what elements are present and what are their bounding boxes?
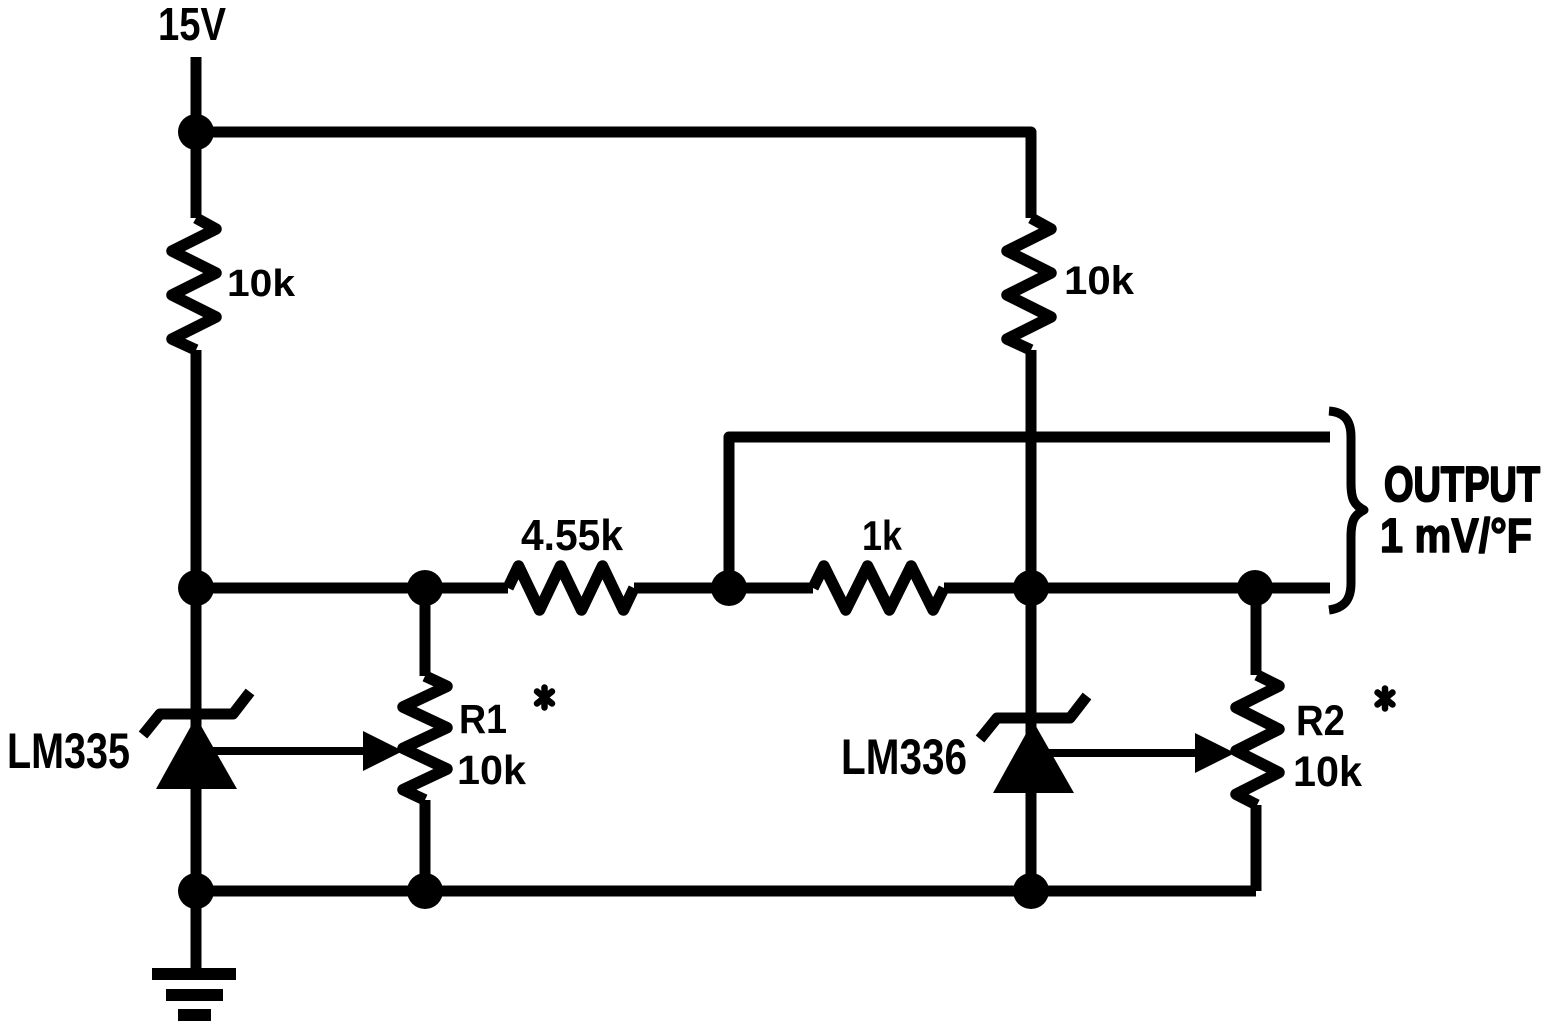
potentiometer R2 zigzag	[1236, 675, 1279, 805]
wire left rail from 10k down through LM335 to bottom rail	[191, 350, 202, 891]
diode LM336 zener cathode bar	[980, 696, 1087, 739]
junction dot LM336 bottom	[1013, 873, 1049, 909]
wire top rail from junction to right branch corner and down	[196, 132, 1031, 218]
junction dot R2 top	[1237, 570, 1273, 606]
diode LM336 anode triangle	[993, 721, 1074, 793]
junction dot R1 bottom	[407, 873, 443, 909]
wire potentiometer R2 branch top	[1251, 588, 1262, 675]
svg-text:4.55k: 4.55k	[521, 511, 623, 560]
junction dot at top-left	[178, 114, 214, 150]
svg-text:15V: 15V	[158, 0, 226, 50]
potentiometer R1 zigzag	[403, 676, 447, 800]
wiper arrow from LM336 to R2	[1047, 733, 1235, 773]
svg-text:LM335: LM335	[7, 723, 130, 779]
svg-text:10k: 10k	[1293, 748, 1362, 796]
wire middle rail left segment	[196, 583, 508, 594]
svg-text:R2: R2	[1296, 697, 1345, 745]
svg-text:10k: 10k	[457, 747, 526, 793]
output brace	[1329, 411, 1364, 610]
svg-text:OUTPUT: OUTPUT	[1384, 458, 1540, 512]
wire bottom rail	[196, 886, 1256, 897]
junction dot bottom-left	[178, 873, 214, 909]
wire 15V stem down to top-left junction	[191, 57, 202, 132]
svg-text:1 mV/°F: 1 mV/°F	[1380, 510, 1532, 563]
wiper arrow from LM335 to R1	[210, 731, 403, 771]
svg-text:10k: 10k	[227, 263, 296, 305]
ground	[152, 891, 236, 1015]
wire right rail from 10k down through LM336 to bottom rail	[1026, 350, 1037, 891]
wire middle rail between 4.55k and 1k	[634, 583, 813, 594]
wire middle rail from 1k to output	[944, 583, 1330, 594]
resistor 1k (horizontal)	[813, 566, 944, 610]
junction dot left rail / middle rail	[178, 570, 214, 606]
wire potentiometer R1 branch top	[420, 588, 431, 676]
wire left rail from junction down to 10k resistor	[191, 132, 202, 218]
svg-text:10k: 10k	[1064, 259, 1135, 303]
junction dot right rail / middle rail	[1013, 570, 1049, 606]
wire output tap up from middle node and right to output bracket	[729, 437, 1330, 588]
svg-text:R1: R1	[459, 696, 507, 742]
resistor 4.55k (horizontal)	[508, 566, 634, 610]
diode LM335 zener cathode bar	[143, 692, 250, 735]
wire potentiometer R2 branch bottom turning onto bottom rail	[1251, 805, 1262, 891]
svg-text:LM336: LM336	[841, 729, 967, 785]
resistor 10k (left, vertical)	[172, 218, 216, 350]
wire potentiometer R1 branch bottom	[420, 800, 431, 891]
junction dot output tap	[711, 570, 747, 606]
junction dot R1 top	[407, 570, 443, 606]
asterisk for R1	[537, 688, 552, 708]
resistor 10k (right, vertical)	[1007, 218, 1051, 350]
asterisk for R2	[1378, 689, 1393, 709]
diode LM335 anode triangle	[156, 717, 237, 789]
svg-text:1k: 1k	[862, 512, 903, 559]
